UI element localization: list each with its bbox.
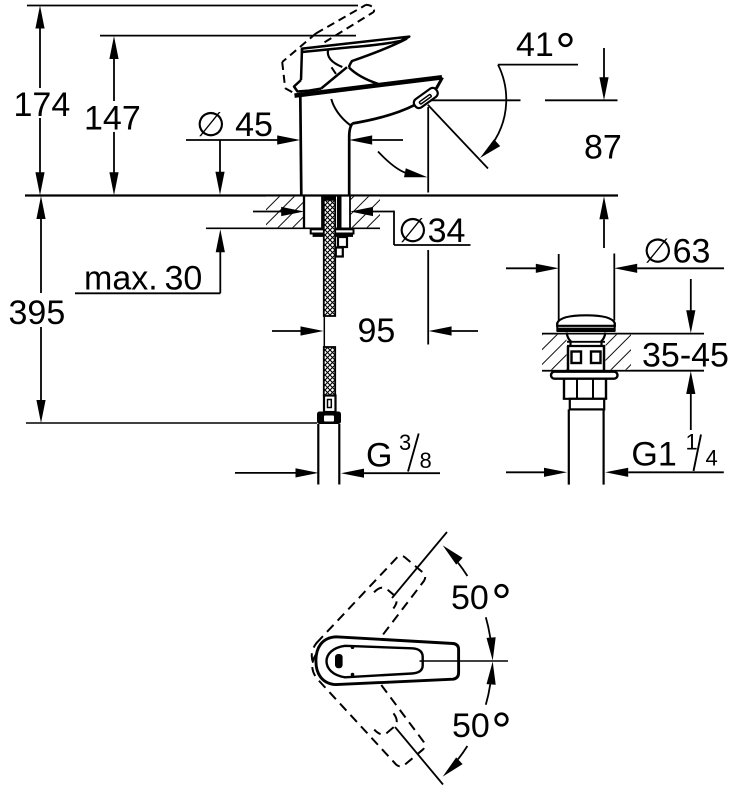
svg-text:3: 3 (399, 430, 411, 455)
spout underside curve (352, 105, 415, 124)
dimension 95 left arrow (272, 330, 301, 332)
35-45 bottom arrow (686, 371, 695, 394)
svg-text:∅63: ∅63 (643, 233, 710, 271)
svg-text:50: 50 (451, 579, 489, 617)
hose end nut slot (324, 416, 334, 422)
drain cap extension line left (558, 254, 560, 321)
50deg upper arc arrowheads (443, 545, 463, 564)
drain dome cap (557, 315, 615, 326)
raised lever body dashed left (282, 33, 316, 62)
handle inner outline (327, 646, 423, 678)
flexible hose upper (324, 200, 335, 316)
spout top edge (thick) (295, 77, 443, 95)
svg-text:max. 30: max. 30 (84, 260, 202, 298)
svg-text:G1: G1 (631, 435, 676, 473)
hose end nut (317, 412, 341, 425)
handle slot (335, 654, 343, 668)
cartridge dome back (349, 68, 378, 84)
drain overflow window right (591, 352, 601, 364)
dimension 87 top arrow (603, 48, 605, 78)
drain overflow window left (572, 352, 582, 364)
hose end reference line (26, 422, 317, 424)
cartridge dome arc (328, 50, 342, 67)
hose fitting (324, 396, 336, 413)
svg-text:∅34: ∅34 (398, 212, 465, 250)
svg-text:95: 95 (358, 312, 396, 350)
lever body left edge (301, 49, 302, 80)
hose fitting slot (328, 400, 332, 408)
drain tailpipe left (568, 409, 570, 484)
dimension 147 arrows and line (109, 36, 118, 59)
counter cross-section hatch left of faucet (266, 197, 304, 228)
handle centerline (420, 660, 509, 662)
hose top dark piece (324, 196, 337, 200)
drain body shoulder lines (567, 341, 605, 343)
D34 right arrow (350, 207, 373, 216)
svg-text:147: 147 (84, 100, 141, 138)
dimension 87 bottom arrow (599, 196, 608, 219)
G3/8 dimension arrows (235, 472, 296, 474)
D34 left arrow (253, 211, 282, 213)
drain body flare right (602, 333, 606, 347)
handle outline rotated -50 (dashed) (304, 632, 432, 772)
faucet body left edge (300, 96, 301, 196)
drain body flare left (567, 333, 571, 347)
svg-text:174: 174 (14, 86, 71, 124)
raised lever body dashed right (332, 67, 339, 77)
svg-text:395: 395 (9, 294, 66, 332)
basin deck hatch left (542, 335, 567, 370)
spout tip face (436, 78, 442, 89)
flexible hose lower (324, 347, 335, 396)
handle outer outline (316, 637, 459, 685)
counter hole right edge (349, 197, 351, 229)
ref line: overall top (lever raised) (27, 5, 358, 7)
faucet body right edge (349, 124, 352, 196)
drain cap rim (thick) (557, 328, 616, 332)
50deg lower line (395, 727, 443, 785)
svg-text:87: 87 (584, 129, 622, 167)
dimension 395 arrows and line (36, 196, 45, 219)
50deg lower arc (458, 746, 467, 759)
aerator housing (412, 86, 439, 110)
mounting step 2 (336, 248, 343, 257)
drain cap extension line right (613, 254, 615, 321)
handle inner cap rotated -50 (dashed) (374, 713, 400, 737)
raised lever dashed bottom edge (325, 12, 375, 43)
svg-text:35-45: 35-45 (642, 337, 729, 375)
mounting nut bar (313, 234, 353, 237)
aerator horizontal ref line (432, 99, 521, 101)
water stream line (428, 105, 488, 169)
D45 leader arrow to counter (219, 140, 221, 173)
faucet shank left edge (303, 197, 305, 229)
svg-text:8: 8 (420, 448, 432, 473)
41deg horizontal line (498, 64, 578, 66)
handle outline rotated +50 (dashed) (303, 549, 431, 689)
mounting washer (311, 229, 354, 233)
handle inner cap rotated +50 (dashed) (374, 584, 400, 608)
drain body edges (567, 346, 570, 371)
hose gap line (323, 316, 325, 347)
basin deck bottom line (542, 370, 704, 372)
D34 callout lines (393, 211, 395, 245)
basin deck top line (542, 333, 704, 335)
lever blade (closed) (302, 37, 409, 52)
ref line: lever closed top (100, 35, 356, 37)
raised lever body dashed lower-left (282, 62, 285, 88)
drain tailpipe right (602, 409, 604, 484)
35-45 top arrow (690, 279, 692, 311)
G3/8 pipe left edge (317, 424, 319, 485)
50deg upper arc (458, 563, 467, 576)
threaded rod (337, 197, 342, 229)
svg-text:∅ 45: ∅ 45 (196, 106, 273, 144)
drain washer (570, 399, 604, 410)
body/spout interior crease (331, 99, 350, 125)
41deg arc arrowhead (480, 139, 500, 158)
dimension D45 arrows (186, 139, 278, 141)
svg-text:1: 1 (686, 430, 698, 455)
max.30 underline and riser (75, 292, 220, 294)
41deg arc (495, 65, 507, 141)
mounting step 1 (338, 237, 347, 247)
handle dot bottom (351, 673, 355, 677)
50deg upper line (392, 532, 447, 598)
drain flange (551, 372, 618, 379)
raised lever dashed top edge (316, 5, 366, 34)
raised lever body dashed bottom (285, 88, 300, 97)
lever body lower-right edge (321, 67, 347, 88)
handle dot top (351, 645, 355, 649)
aerator vertical extension line (427, 107, 429, 193)
dimension 174 arrows and line (35, 6, 44, 29)
lever body bottom beak (294, 80, 321, 92)
basin deck hatch right (606, 335, 632, 370)
flow direction arrow (378, 152, 406, 173)
counter bottom line (206, 227, 380, 229)
svg-text:G: G (366, 437, 392, 475)
drain hex nut (563, 379, 565, 399)
svg-text:4: 4 (706, 445, 718, 470)
faucet shank right edge (321, 197, 323, 229)
D63 arrows (506, 267, 536, 269)
counter cross-section hatch right of faucet (350, 197, 380, 228)
50deg lower arc arrowheads (443, 757, 463, 776)
G3/8 pipe right edge (338, 424, 340, 485)
G1 1/4 dimension arrows (506, 471, 544, 473)
svg-text:41: 41 (516, 26, 554, 64)
lever housing back curve (349, 39, 407, 68)
dimension 95 right arrow (429, 326, 452, 335)
counter top surface line (25, 194, 618, 196)
aerator slot (419, 94, 432, 104)
raised lever dashed tip (366, 5, 374, 12)
svg-text:50: 50 (452, 707, 490, 745)
